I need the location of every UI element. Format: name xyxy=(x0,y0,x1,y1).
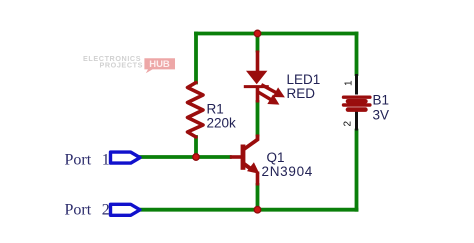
svg-text:RED: RED xyxy=(287,86,316,101)
svg-text:Q1: Q1 xyxy=(267,150,285,165)
svg-text:Port: Port xyxy=(65,202,92,219)
svg-text:Port: Port xyxy=(65,151,92,168)
svg-text:R1: R1 xyxy=(207,102,224,117)
svg-text:B1: B1 xyxy=(373,93,390,108)
svg-text:PROJECTS: PROJECTS xyxy=(99,61,143,70)
svg-text:LED1: LED1 xyxy=(287,72,321,87)
svg-text:2: 2 xyxy=(343,121,354,127)
svg-text:2: 2 xyxy=(102,202,110,219)
svg-text:1: 1 xyxy=(344,80,355,86)
svg-text:220k: 220k xyxy=(207,116,237,131)
svg-text:1: 1 xyxy=(102,151,110,168)
svg-text:HUB: HUB xyxy=(149,59,170,70)
svg-text:3V: 3V xyxy=(373,108,390,123)
svg-text:2N3904: 2N3904 xyxy=(262,164,314,179)
